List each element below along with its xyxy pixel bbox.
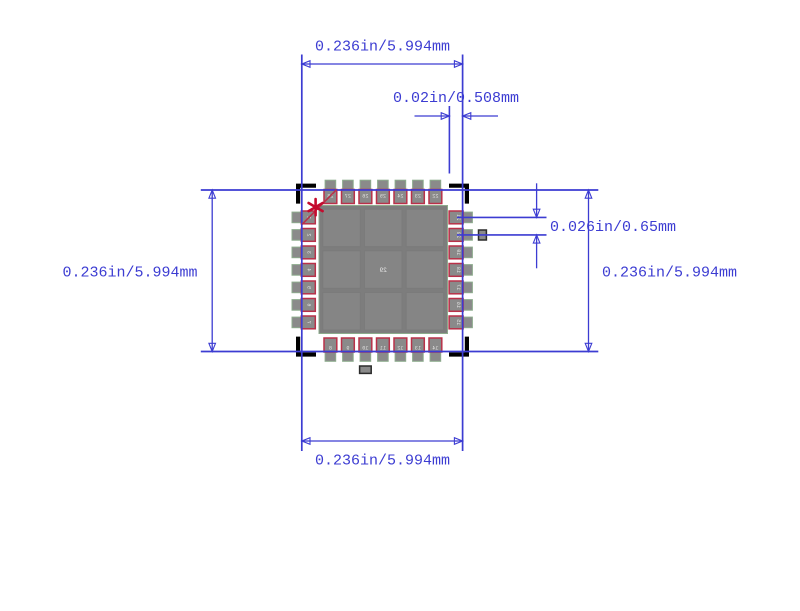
pin 1 indicator asterisk [309,199,323,215]
pad 8 (bottom row) [324,338,337,361]
pad 6 (left column) [292,299,315,312]
pad 9 (bottom row) [342,338,355,361]
svg-text:26: 26 [362,193,368,199]
svg-text:5: 5 [306,286,312,289]
pad 16 (right column) [449,299,472,312]
pad 21 (right column) [449,211,472,224]
pad 1 (left column) [292,211,315,224]
dimension 0.236in/5.994mm left: line and arrows [209,190,216,352]
extension line right (package right edge) [462,55,464,452]
dimension 0.026in/0.65mm: lower arrow segment [533,235,540,268]
pad 19 (right column) [449,246,472,259]
svg-text:15: 15 [455,319,461,325]
svg-text:27: 27 [345,193,351,199]
svg-text:4: 4 [306,268,312,271]
pad 4 (left column) [292,264,315,277]
svg-text:0.236in/5.994mm: 0.236in/5.994mm [602,264,737,281]
pad 28 (top row) [324,180,337,203]
silkscreen corner mark bottom-left [296,337,316,357]
pad 20 (right column) [449,229,472,242]
pad 7 (left column) [292,316,315,329]
svg-text:0.236in/5.994mm: 0.236in/5.994mm [63,264,198,281]
pad 25 (top row) [377,180,390,203]
pad 18 (right column) [449,264,472,277]
svg-text:24: 24 [397,193,403,199]
orientation square near pad 20 (right of package) [479,230,487,240]
dimension 0.236in/5.994mm bottom: line and arrows [302,438,463,445]
silkscreen corner mark top-left [296,184,316,204]
pad 2 (left column) [292,229,315,242]
dimension 0.236in/5.994mm top: line and arrows [302,61,463,68]
pad 11 (bottom row) [377,338,390,361]
pad 10 (bottom row) [359,338,372,361]
svg-text:0.02in/0.508mm: 0.02in/0.508mm [393,90,519,107]
svg-text:25: 25 [380,193,386,199]
svg-text:3: 3 [306,251,312,254]
svg-text:0.236in/5.994mm: 0.236in/5.994mm [315,453,450,470]
dimension 0.02in/0.508mm (pad width): extension line [448,106,450,174]
pad 3 (left column) [292,246,315,259]
svg-text:22: 22 [432,193,438,199]
pad 15 (right column) [449,316,472,329]
svg-text:29: 29 [379,267,387,274]
pad 13 (bottom row) [412,338,425,361]
extension line left (package left edge) [301,55,303,452]
pad 27 (top row) [342,180,355,203]
pad 26 (top row) [359,180,372,203]
pad 12 (bottom row) [394,338,407,361]
svg-text:0.026in/0.65mm: 0.026in/0.65mm [550,219,676,236]
pad 23 (top row) [412,180,425,203]
svg-text:23: 23 [415,193,421,199]
dimension 0.236in/5.994mm right: line and arrows [585,190,592,352]
pad 22 (top row) [429,180,442,203]
silkscreen corner mark top-right [449,184,469,204]
svg-text:2: 2 [306,233,312,236]
dimension 0.02in/0.508mm: left arrow line [415,113,450,120]
pad 5 (left column) [292,281,315,294]
orientation square near pad 10 (below package) [360,366,372,373]
pad 14 (bottom row) [429,338,442,361]
extension line top (package top edge) [201,189,599,191]
silkscreen corner mark bottom-right [449,337,469,357]
dimension 0.026in/0.65mm: upper arrow segment [533,183,540,217]
pin 1 indicator diagonal line [302,190,336,225]
svg-text:18: 18 [455,267,461,273]
pad 24 (top row) [394,180,407,203]
extension line bottom (package bottom edge) [201,351,599,353]
svg-text:16: 16 [455,302,461,308]
pad 17 (right column) [449,281,472,294]
thermal pad 29 (exposed pad) [319,206,448,334]
svg-text:19: 19 [455,249,461,255]
dimension 0.026in/0.65mm: lower extension line from pad 20 [457,234,547,236]
dimension 0.026in/0.65mm (pitch): upper extension line from pad 21 [457,216,547,218]
svg-text:6: 6 [306,303,312,306]
dimension 0.02in/0.508mm: right arrow line [463,113,498,120]
svg-text:7: 7 [306,321,312,324]
svg-text:17: 17 [455,284,461,290]
svg-text:0.236in/5.994mm: 0.236in/5.994mm [315,39,450,56]
